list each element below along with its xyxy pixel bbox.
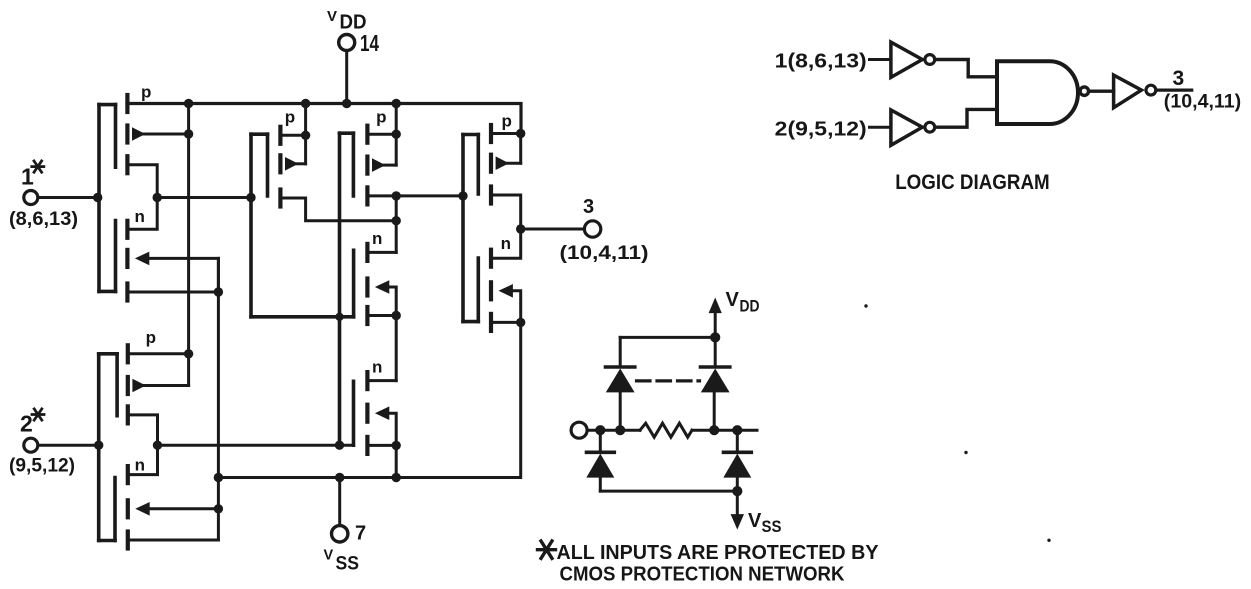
- speck noise mark 1: [864, 304, 867, 307]
- gate structure output inverter: [463, 135, 478, 322]
- wire: VDD top rail: [127, 104, 521, 134]
- label VSS (protection): [748, 510, 782, 536]
- node junction at (339.5,445.2): [335, 441, 344, 450]
- label 2* (9,5,12): [9, 411, 75, 477]
- node: n3 source junction: [392, 311, 401, 320]
- node: pB drain junction: [392, 130, 401, 139]
- svg-text:n: n: [372, 229, 382, 248]
- node junction at (157.2,197.5): [153, 193, 162, 202]
- NAND gate U3: [997, 61, 1089, 124]
- protection input terminal: [571, 422, 640, 438]
- svg-text:n: n: [372, 357, 382, 376]
- svg-text:3: 3: [583, 196, 594, 218]
- svg-text:ALL INPUTS ARE PROTECTED BY: ALL INPUTS ARE PROTECTED BY: [557, 542, 880, 564]
- node junction at (463,195.9): [458, 191, 467, 200]
- transistor p5 (output inverter p): [491, 125, 521, 229]
- node junction at (520.7,229): [516, 224, 525, 233]
- wire: resistor to right diodes: [692, 429, 757, 432]
- svg-text:(10,4,11): (10,4,11): [560, 243, 649, 264]
- diode D1 (input to VDD, left): [606, 337, 635, 430]
- node: small bleed dot at crossing: [335, 313, 343, 321]
- svg-text:p: p: [146, 328, 156, 347]
- node junction at (396.2,220.7): [392, 216, 401, 225]
- wire: n-chain bus x=218 down to VSS rail: [217, 258, 220, 540]
- speck noise mark 2: [964, 451, 967, 454]
- transistor p1: [127, 95, 188, 198]
- svg-text:p: p: [502, 112, 512, 131]
- input terminal 2: [24, 438, 99, 452]
- asterisk input 1: [32, 161, 44, 172]
- node: input 2 junction: [94, 441, 103, 450]
- node: n1 source junction: [214, 287, 223, 296]
- wire: dashed distributed-diode link: [637, 379, 700, 382]
- svg-text:SS: SS: [336, 554, 360, 575]
- label VDD (protection): [726, 289, 760, 316]
- wire: protection top rail: [620, 336, 715, 339]
- VDD terminal pin 14: [339, 35, 355, 104]
- speck noise mark 3: [1047, 539, 1050, 542]
- svg-text:7: 7: [355, 523, 366, 545]
- inverter U4: [1114, 75, 1156, 108]
- svg-text:n: n: [135, 456, 145, 475]
- label VDD: [327, 8, 379, 56]
- diode D3 (VSS to input, left): [586, 430, 614, 491]
- wire: node B (inverter-2 output): [158, 444, 354, 447]
- VSS terminal pin 7: [332, 478, 348, 543]
- node junction at (218.4,477.5): [214, 473, 223, 482]
- svg-text:2(9,5,12): 2(9,5,12): [775, 119, 867, 141]
- node junction at (737.3,430.2): [732, 425, 742, 435]
- svg-text:n: n: [501, 234, 511, 253]
- node junction at (396.2,477.5): [392, 473, 401, 482]
- wire: logic output: [1156, 88, 1192, 91]
- label output 3 (10,4,11): [1164, 67, 1241, 113]
- transistor n5 (output inverter n): [491, 229, 521, 331]
- inverter U2: [891, 110, 935, 145]
- node junction at (600.3,430.2): [595, 425, 605, 435]
- transistor n2L (inverter-2 n): [128, 445, 219, 548]
- node junction at (157.5,445.2): [153, 441, 162, 450]
- wire NAND to inverter 3: [1089, 89, 1114, 92]
- svg-text:V: V: [327, 8, 337, 25]
- label 1* (8,6,13): [9, 164, 78, 231]
- node junction at (714.2,430.2): [709, 425, 719, 435]
- svg-text:3: 3: [1173, 67, 1185, 90]
- diode D2 (input to VDD, right): [701, 337, 730, 430]
- node: p2 drain junction: [301, 131, 310, 140]
- wire: NAND output node vertical: [395, 196, 398, 253]
- node: rail junction at x=305.6: [301, 99, 310, 108]
- transistor n4 (NAND n bottom): [367, 372, 396, 454]
- label 7 VSS: [324, 523, 367, 575]
- wire: n3-n4 series link: [395, 316, 398, 381]
- wire: n4 gate bar: [352, 381, 356, 445]
- wire: node A (inverter-1 output): [157, 196, 251, 199]
- node junction at (251,197.5): [246, 193, 255, 202]
- wire to inverter 2: [870, 126, 891, 129]
- node junction at (188.6,353.8): [184, 349, 193, 358]
- svg-text:CMOS PROTECTION NETWORK: CMOS PROTECTION NETWORK: [560, 564, 846, 586]
- node junction at (396.2,195.9): [392, 191, 401, 200]
- gate structure node B (pB gate hook): [340, 133, 354, 445]
- transistor p2 (NAND p-device A): [280, 104, 396, 221]
- wire to inverter 1: [870, 58, 891, 61]
- svg-text:SS: SS: [762, 517, 782, 536]
- footnote asterisk: [538, 541, 556, 558]
- wire: VSS rail: [218, 322, 520, 477]
- label 3 (10,4,11): [560, 196, 649, 264]
- svg-text:V: V: [726, 289, 740, 311]
- transistor n1: [127, 198, 218, 301]
- node: input 1 junction: [93, 193, 102, 202]
- svg-text:p: p: [376, 108, 386, 127]
- node: rail junction at x=396.2: [392, 99, 401, 108]
- svg-text:(8,6,13): (8,6,13): [9, 209, 78, 230]
- input terminal 1: [24, 191, 98, 205]
- inverter U1: [891, 42, 935, 77]
- svg-text:p: p: [141, 83, 151, 102]
- svg-text:n: n: [135, 207, 145, 226]
- svg-text:LOGIC DIAGRAM: LOGIC DIAGRAM: [895, 171, 1049, 194]
- wire: VDD bus x=189 down to lower p: [187, 104, 190, 386]
- wire: protection bottom rail: [600, 490, 737, 493]
- wire: n4 source to VSS rail: [395, 445, 398, 477]
- node junction at (339.7,477.5): [335, 473, 344, 482]
- node junction at (715.2,337.4): [710, 332, 720, 342]
- node: n4 source junction: [392, 441, 401, 450]
- node: rail junction at x=188.6: [184, 99, 193, 108]
- wire inverter1 to NAND: [935, 60, 996, 77]
- wire: node A to n3 gate: [251, 250, 354, 316]
- wire inverter2 to NAND: [935, 109, 996, 127]
- node: n5 source junction: [516, 318, 525, 327]
- svg-text:DD: DD: [740, 297, 760, 316]
- svg-text:V: V: [748, 510, 762, 532]
- VSS arrow terminal: [731, 491, 744, 529]
- node junction at (620.2,430.2): [615, 425, 625, 435]
- gate structure input 2 (bus + gate bars of p2L/n2L): [99, 354, 117, 541]
- gate structure node A (p2 gate hook): [251, 134, 268, 317]
- transistor p2L (inverter-2 p): [128, 345, 189, 445]
- node junction at (737.3,491.1): [732, 486, 742, 496]
- svg-text:V: V: [324, 548, 334, 564]
- asterisk input 2: [32, 409, 44, 420]
- svg-text:14: 14: [360, 30, 379, 56]
- node: p1 substrate junction: [184, 129, 193, 138]
- node: rail junction at VDD drop: [342, 99, 351, 108]
- node: p5 drain junction: [516, 129, 525, 138]
- gate structure input 1 (bus + gate bars of p1/n1): [99, 105, 116, 292]
- output terminal 3: [521, 221, 601, 237]
- wire: NAND output to output-inverter gate: [396, 194, 463, 197]
- footnote text: [557, 542, 880, 586]
- svg-text:(10,4,11): (10,4,11): [1164, 92, 1241, 113]
- transistor n3 (NAND n top): [367, 244, 396, 324]
- diode D4 (VSS to input, right): [723, 430, 751, 491]
- svg-text:(9,5,12): (9,5,12): [9, 456, 75, 477]
- svg-text:1(8,6,13): 1(8,6,13): [775, 51, 867, 73]
- svg-text:p: p: [285, 108, 295, 127]
- transistor pB (NAND p-device B): [367, 104, 396, 205]
- VDD arrow terminal: [709, 298, 722, 338]
- resistor (series input R): [640, 423, 692, 437]
- node: n2L substrate junction: [214, 504, 223, 513]
